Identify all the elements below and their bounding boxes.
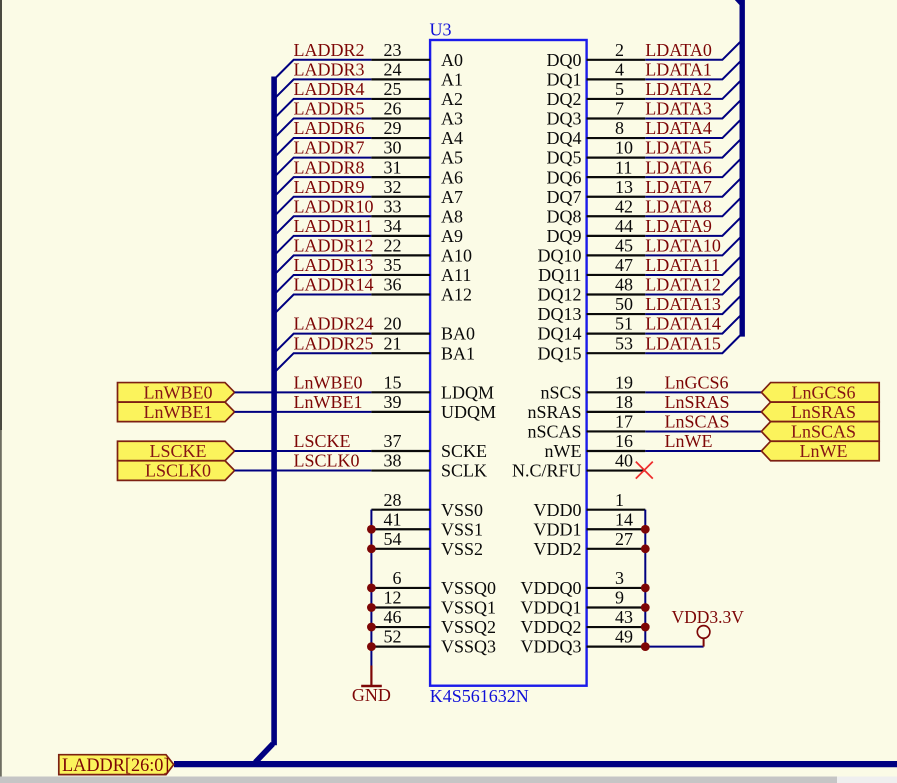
pin 17 (nSCAS) bbox=[587, 430, 646, 432]
pin 7 (DQ3) bbox=[587, 117, 646, 119]
svg-text:40: 40 bbox=[615, 451, 633, 471]
svg-text:50: 50 bbox=[615, 294, 633, 314]
svg-text:A2: A2 bbox=[441, 89, 463, 109]
svg-text:17: 17 bbox=[615, 412, 633, 432]
svg-text:VDDQ0: VDDQ0 bbox=[521, 578, 582, 598]
svg-text:39: 39 bbox=[384, 392, 402, 412]
svg-text:LADDR12: LADDR12 bbox=[294, 236, 374, 256]
svg-text:4: 4 bbox=[615, 59, 624, 79]
svg-text:A1: A1 bbox=[441, 69, 463, 89]
pin 23 (A0) bbox=[371, 59, 430, 61]
svg-text:14: 14 bbox=[615, 509, 633, 529]
svg-text:LDATA14: LDATA14 bbox=[645, 314, 721, 334]
pin 6 (VSSQ0) bbox=[371, 587, 430, 589]
svg-text:VDDQ1: VDDQ1 bbox=[521, 598, 582, 618]
pin 24 (A1) bbox=[371, 78, 430, 80]
svg-text:8: 8 bbox=[615, 118, 624, 138]
svg-text:DQ12: DQ12 bbox=[538, 285, 582, 305]
svg-text:VSSQ1: VSSQ1 bbox=[441, 598, 496, 618]
svg-text:52: 52 bbox=[384, 627, 402, 647]
svg-text:BA1: BA1 bbox=[441, 343, 475, 363]
svg-text:38: 38 bbox=[384, 451, 402, 471]
pin 30 (A5) bbox=[371, 157, 430, 159]
svg-text:16: 16 bbox=[615, 431, 633, 451]
svg-text:U3: U3 bbox=[430, 20, 452, 40]
svg-text:A12: A12 bbox=[441, 285, 472, 305]
bus LDATA top bend bbox=[735, 0, 741, 3]
svg-text:43: 43 bbox=[615, 607, 633, 627]
svg-text:DQ5: DQ5 bbox=[547, 148, 582, 168]
svg-text:LADDR[26:0]: LADDR[26:0] bbox=[62, 755, 170, 776]
wire LDATA2 with bus entry bbox=[645, 79, 742, 99]
junction on GND net row 25 bbox=[367, 544, 376, 553]
wire LADDR10 with bus entry bbox=[274, 216, 371, 236]
svg-text:LnGCS6: LnGCS6 bbox=[665, 372, 729, 392]
svg-text:VSS2: VSS2 bbox=[441, 539, 483, 559]
port LSCLK0 bbox=[118, 461, 235, 481]
pin 38 (SCLK) bbox=[371, 469, 430, 471]
svg-text:LDATA1: LDATA1 bbox=[645, 59, 712, 79]
pin 51 (DQ14) bbox=[587, 333, 646, 335]
bus LADDR 45-degree corner bbox=[255, 744, 273, 763]
pin 12 (VSSQ1) bbox=[371, 606, 430, 608]
pin 4 (DQ1) bbox=[587, 78, 646, 80]
pin 37 (SCKE) bbox=[371, 450, 430, 452]
pin 14 (VDD1) bbox=[587, 528, 646, 530]
svg-text:LDATA0: LDATA0 bbox=[645, 40, 712, 60]
svg-text:VDD1: VDD1 bbox=[534, 519, 582, 539]
pin 8 (DQ4) bbox=[587, 137, 646, 139]
svg-text:2: 2 bbox=[615, 40, 624, 60]
wire LnWBE0 bbox=[235, 391, 372, 393]
pin 45 (DQ10) bbox=[587, 254, 646, 256]
svg-text:A4: A4 bbox=[441, 128, 463, 148]
junction on VDD net row 27 bbox=[641, 584, 650, 593]
junction on VDD net row 25 bbox=[641, 544, 650, 553]
svg-text:VSSQ0: VSSQ0 bbox=[441, 578, 496, 598]
junction on GND net row 30 bbox=[367, 642, 376, 651]
ground symbol GND bbox=[361, 666, 382, 687]
pin 16 (nWE) bbox=[587, 450, 646, 452]
svg-text:LDATA11: LDATA11 bbox=[645, 255, 720, 275]
svg-text:DQ13: DQ13 bbox=[538, 304, 582, 324]
svg-text:A10: A10 bbox=[441, 246, 472, 266]
pin 36 (A12) bbox=[371, 293, 430, 295]
wire LADDR3 with bus entry bbox=[274, 79, 371, 99]
pin 42 (DQ8) bbox=[587, 215, 646, 217]
pin 28 (VSS0) bbox=[371, 509, 430, 511]
pin 49 (VDDQ3) bbox=[587, 645, 646, 647]
svg-text:LDATA3: LDATA3 bbox=[645, 99, 712, 119]
wire LnSCAS bbox=[645, 430, 761, 432]
port LSCKE bbox=[118, 441, 235, 461]
junction on GND net row 29 bbox=[367, 623, 376, 632]
wire LnWE bbox=[645, 450, 761, 452]
svg-text:26: 26 bbox=[384, 99, 402, 119]
pin 54 (VSS2) bbox=[371, 548, 430, 550]
pin 29 (A4) bbox=[371, 137, 430, 139]
pin 10 (DQ5) bbox=[587, 157, 646, 159]
svg-text:LnWE: LnWE bbox=[665, 431, 713, 451]
svg-text:24: 24 bbox=[384, 59, 402, 79]
pin 2 (DQ0) bbox=[587, 59, 646, 61]
pin 22 (A10) bbox=[371, 254, 430, 256]
svg-text:DQ9: DQ9 bbox=[547, 226, 582, 246]
bus LADDR horizontal segment bbox=[174, 761, 897, 767]
svg-text:LnSRAS: LnSRAS bbox=[791, 402, 856, 422]
svg-text:LDATA13: LDATA13 bbox=[645, 294, 721, 314]
svg-text:31: 31 bbox=[384, 157, 402, 177]
pin 47 (DQ11) bbox=[587, 274, 646, 276]
svg-text:7: 7 bbox=[615, 99, 624, 119]
svg-text:DQ8: DQ8 bbox=[547, 206, 582, 226]
pin 25 (A2) bbox=[371, 98, 430, 100]
svg-text:LDATA12: LDATA12 bbox=[645, 275, 721, 295]
svg-text:K4S561632N: K4S561632N bbox=[430, 686, 529, 706]
junction on GND net row 24 bbox=[367, 525, 376, 534]
svg-text:GND: GND bbox=[352, 685, 391, 705]
pin 40 (N.C/RFU) bbox=[587, 469, 646, 471]
svg-text:LDATA9: LDATA9 bbox=[645, 216, 712, 236]
svg-text:25: 25 bbox=[384, 79, 402, 99]
svg-text:DQ2: DQ2 bbox=[547, 89, 582, 109]
svg-text:11: 11 bbox=[615, 157, 632, 177]
svg-text:DQ11: DQ11 bbox=[538, 265, 581, 285]
svg-text:41: 41 bbox=[384, 509, 402, 529]
wire LADDR8 with bus entry bbox=[274, 177, 371, 197]
svg-text:A5: A5 bbox=[441, 148, 463, 168]
port LnWBE1 bbox=[118, 402, 235, 422]
wire LADDR11 with bus entry bbox=[274, 236, 371, 256]
svg-text:SCKE: SCKE bbox=[441, 441, 487, 461]
svg-text:VDDQ3: VDDQ3 bbox=[521, 637, 582, 657]
svg-text:DQ3: DQ3 bbox=[547, 109, 582, 129]
wire LADDR5 with bus entry bbox=[274, 118, 371, 138]
svg-text:LSCLK0: LSCLK0 bbox=[294, 451, 360, 471]
svg-text:20: 20 bbox=[384, 314, 402, 334]
svg-text:A6: A6 bbox=[441, 167, 463, 187]
svg-text:LADDR6: LADDR6 bbox=[294, 118, 365, 138]
svg-text:LADDR3: LADDR3 bbox=[294, 59, 365, 79]
wire LDATA3 with bus entry bbox=[645, 99, 742, 119]
svg-text:30: 30 bbox=[384, 138, 402, 158]
svg-text:LADDR8: LADDR8 bbox=[294, 157, 365, 177]
wire LnWBE1 bbox=[235, 411, 372, 413]
svg-text:DQ7: DQ7 bbox=[547, 187, 582, 207]
svg-text:nSRAS: nSRAS bbox=[527, 402, 581, 422]
svg-text:DQ15: DQ15 bbox=[538, 343, 582, 363]
svg-text:42: 42 bbox=[615, 196, 633, 216]
svg-text:LnWBE1: LnWBE1 bbox=[294, 392, 363, 412]
svg-text:10: 10 bbox=[615, 138, 633, 158]
wire LDATA5 with bus entry bbox=[645, 138, 742, 158]
no-connect marker X on pin 40 bbox=[636, 462, 653, 479]
pin 18 (nSRAS) bbox=[587, 411, 646, 413]
port LnSRAS bbox=[761, 402, 879, 422]
svg-text:A3: A3 bbox=[441, 109, 463, 129]
svg-text:VDDQ2: VDDQ2 bbox=[521, 617, 582, 637]
svg-text:37: 37 bbox=[384, 431, 402, 451]
svg-text:46: 46 bbox=[384, 607, 402, 627]
IC U3 body rectangle bbox=[430, 40, 586, 686]
pin 43 (VDDQ2) bbox=[587, 626, 646, 628]
pin 34 (A9) bbox=[371, 235, 430, 237]
wire LSCLK0 bbox=[235, 470, 372, 472]
svg-text:LnSRAS: LnSRAS bbox=[665, 392, 730, 412]
svg-text:A11: A11 bbox=[441, 265, 471, 285]
svg-text:45: 45 bbox=[615, 236, 633, 256]
svg-text:DQ4: DQ4 bbox=[547, 128, 582, 148]
wire LADDR6 with bus entry bbox=[274, 138, 371, 158]
svg-text:LDATA2: LDATA2 bbox=[645, 79, 712, 99]
svg-text:LSCKE: LSCKE bbox=[149, 441, 206, 461]
svg-text:48: 48 bbox=[615, 275, 633, 295]
svg-text:LDATA15: LDATA15 bbox=[645, 333, 721, 353]
svg-text:LDATA5: LDATA5 bbox=[645, 138, 712, 158]
pin 50 (DQ13) bbox=[587, 313, 646, 315]
wire LDATA10 with bus entry bbox=[645, 236, 742, 256]
svg-text:32: 32 bbox=[384, 177, 402, 197]
svg-text:N.C/RFU: N.C/RFU bbox=[512, 461, 582, 481]
svg-text:47: 47 bbox=[615, 255, 633, 275]
svg-text:21: 21 bbox=[384, 333, 402, 353]
svg-text:VSS1: VSS1 bbox=[441, 519, 483, 539]
wire LDATA15 with bus entry bbox=[645, 334, 742, 354]
svg-text:DQ6: DQ6 bbox=[547, 167, 582, 187]
svg-text:LnWBE0: LnWBE0 bbox=[294, 372, 363, 392]
svg-text:A0: A0 bbox=[441, 50, 463, 70]
svg-text:DQ0: DQ0 bbox=[547, 50, 582, 70]
svg-text:LADDR14: LADDR14 bbox=[294, 275, 374, 295]
wire LDATA12 with bus entry bbox=[645, 275, 742, 295]
junction on VDD net row 30 bbox=[641, 642, 650, 651]
svg-text:LDATA8: LDATA8 bbox=[645, 196, 712, 216]
svg-text:34: 34 bbox=[384, 216, 402, 236]
wire LADDR2 with bus entry bbox=[274, 60, 371, 80]
svg-text:UDQM: UDQM bbox=[441, 402, 496, 422]
svg-text:LDATA4: LDATA4 bbox=[645, 118, 712, 138]
bus LADDR vertical segment bbox=[271, 77, 277, 746]
svg-text:49: 49 bbox=[615, 627, 633, 647]
wire LDATA4 with bus entry bbox=[645, 118, 742, 138]
svg-text:LADDR11: LADDR11 bbox=[294, 216, 373, 236]
bus net label LADDR[26:0] bbox=[59, 755, 174, 775]
svg-text:12: 12 bbox=[384, 588, 402, 608]
power symbol VDD3.3V circle bbox=[697, 626, 710, 647]
pin 11 (DQ6) bbox=[587, 176, 646, 178]
svg-text:LADDR4: LADDR4 bbox=[294, 79, 365, 99]
svg-text:9: 9 bbox=[615, 588, 624, 608]
pin 3 (VDDQ0) bbox=[587, 587, 646, 589]
svg-text:LnSCAS: LnSCAS bbox=[791, 422, 856, 442]
svg-text:LSCKE: LSCKE bbox=[294, 431, 351, 451]
junction on GND net row 27 bbox=[367, 584, 376, 593]
junction on VDD net row 28 bbox=[641, 603, 650, 612]
svg-text:LADDR2: LADDR2 bbox=[294, 40, 365, 60]
wire LnSRAS bbox=[645, 411, 761, 413]
pin 26 (A3) bbox=[371, 117, 430, 119]
wire GND net vertical bbox=[370, 510, 372, 666]
wire LSCKE bbox=[235, 450, 372, 452]
pin 33 (A8) bbox=[371, 215, 430, 217]
svg-text:51: 51 bbox=[615, 314, 633, 334]
svg-text:SCLK: SCLK bbox=[441, 461, 487, 481]
wire LADDR7 with bus entry bbox=[274, 158, 371, 178]
pin 39 (UDQM) bbox=[371, 411, 430, 413]
svg-text:29: 29 bbox=[384, 118, 402, 138]
svg-text:nSCS: nSCS bbox=[540, 382, 581, 402]
svg-text:A7: A7 bbox=[441, 187, 463, 207]
svg-text:LnWE: LnWE bbox=[800, 441, 848, 461]
port LnWBE0 bbox=[118, 383, 235, 403]
svg-text:53: 53 bbox=[615, 333, 633, 353]
pin 15 (LDQM) bbox=[371, 391, 430, 393]
pin 13 (DQ7) bbox=[587, 196, 646, 198]
svg-text:44: 44 bbox=[615, 216, 633, 236]
svg-text:DQ14: DQ14 bbox=[538, 324, 582, 344]
pin 41 (VSS1) bbox=[371, 528, 430, 530]
svg-text:LDATA7: LDATA7 bbox=[645, 177, 712, 197]
svg-text:LADDR5: LADDR5 bbox=[294, 99, 365, 119]
svg-text:3: 3 bbox=[615, 568, 624, 588]
svg-text:LADDR7: LADDR7 bbox=[294, 138, 365, 158]
pin 19 (nSCS) bbox=[587, 391, 646, 393]
pin 31 (A6) bbox=[371, 176, 430, 178]
pin 32 (A7) bbox=[371, 196, 430, 198]
svg-text:23: 23 bbox=[384, 40, 402, 60]
svg-text:LnWBE0: LnWBE0 bbox=[144, 382, 213, 402]
svg-text:nWE: nWE bbox=[545, 441, 582, 461]
pin 35 (A11) bbox=[371, 274, 430, 276]
wire LDATA14 with bus entry bbox=[645, 314, 742, 334]
svg-text:13: 13 bbox=[615, 177, 633, 197]
pin 52 (VSSQ3) bbox=[371, 645, 430, 647]
junction on VDD net row 29 bbox=[641, 623, 650, 632]
svg-text:LnSCAS: LnSCAS bbox=[665, 412, 730, 432]
svg-text:19: 19 bbox=[615, 372, 633, 392]
wire LADDR4 with bus entry bbox=[274, 99, 371, 119]
port LnSCAS bbox=[761, 422, 879, 442]
wire LnGCS6 bbox=[645, 391, 761, 393]
svg-text:A8: A8 bbox=[441, 206, 463, 226]
svg-text:VSSQ2: VSSQ2 bbox=[441, 617, 496, 637]
svg-text:LADDR10: LADDR10 bbox=[294, 196, 374, 216]
svg-text:LADDR24: LADDR24 bbox=[294, 314, 374, 334]
wire LADDR24 with bus entry bbox=[274, 334, 371, 354]
bus LDATA vertical segment bbox=[740, 0, 745, 337]
svg-text:LSCLK0: LSCLK0 bbox=[145, 461, 211, 481]
svg-text:DQ10: DQ10 bbox=[538, 246, 582, 266]
svg-text:VDD3.3V: VDD3.3V bbox=[672, 607, 745, 627]
wire LDATA11 with bus entry bbox=[645, 255, 742, 275]
svg-text:BA0: BA0 bbox=[441, 324, 475, 344]
wire LADDR13 with bus entry bbox=[274, 275, 371, 295]
pin 21 (BA1) bbox=[371, 352, 430, 354]
svg-text:LnWBE1: LnWBE1 bbox=[144, 402, 213, 422]
wire LDATA6 with bus entry bbox=[645, 158, 742, 178]
svg-text:15: 15 bbox=[384, 372, 402, 392]
svg-text:VSS0: VSS0 bbox=[441, 500, 483, 520]
junction on VDD net row 24 bbox=[641, 525, 650, 534]
svg-text:LADDR13: LADDR13 bbox=[294, 255, 374, 275]
junction on GND net row 28 bbox=[367, 603, 376, 612]
svg-text:VSSQ3: VSSQ3 bbox=[441, 637, 496, 657]
wire LADDR12 with bus entry bbox=[274, 255, 371, 275]
svg-text:6: 6 bbox=[393, 568, 402, 588]
pin 27 (VDD2) bbox=[587, 548, 646, 550]
svg-text:18: 18 bbox=[615, 392, 633, 412]
svg-text:35: 35 bbox=[384, 255, 402, 275]
wire LDATA9 with bus entry bbox=[645, 216, 742, 236]
svg-text:36: 36 bbox=[384, 275, 402, 295]
svg-text:22: 22 bbox=[384, 236, 402, 256]
svg-text:54: 54 bbox=[384, 529, 402, 549]
wire LDATA13 with bus entry bbox=[645, 295, 742, 315]
svg-text:LADDR25: LADDR25 bbox=[294, 333, 374, 353]
svg-text:LDATA10: LDATA10 bbox=[645, 236, 721, 256]
pin 48 (DQ12) bbox=[587, 293, 646, 295]
pin 5 (DQ2) bbox=[587, 98, 646, 100]
pin 1 (VDD0) bbox=[587, 509, 646, 511]
wire LDATA8 with bus entry bbox=[645, 197, 742, 217]
svg-text:LnGCS6: LnGCS6 bbox=[791, 382, 855, 402]
svg-text:VDD2: VDD2 bbox=[534, 539, 582, 559]
pin 44 (DQ9) bbox=[587, 235, 646, 237]
svg-text:27: 27 bbox=[615, 529, 633, 549]
pin 46 (VSSQ2) bbox=[371, 626, 430, 628]
svg-text:DQ1: DQ1 bbox=[547, 69, 582, 89]
svg-text:VDD0: VDD0 bbox=[534, 500, 582, 520]
svg-text:5: 5 bbox=[615, 79, 624, 99]
wire LDATA1 with bus entry bbox=[645, 60, 742, 80]
pin 20 (BA0) bbox=[371, 333, 430, 335]
svg-text:A9: A9 bbox=[441, 226, 463, 246]
svg-text:LDATA6: LDATA6 bbox=[645, 157, 712, 177]
wire LDATA0 with bus entry bbox=[645, 40, 742, 60]
wire VDD net vertical and horizontal bbox=[645, 510, 703, 647]
svg-text:LDQM: LDQM bbox=[441, 382, 494, 402]
port LnWE bbox=[761, 441, 879, 461]
svg-text:28: 28 bbox=[384, 490, 402, 510]
svg-text:nSCAS: nSCAS bbox=[527, 422, 581, 442]
svg-text:LADDR9: LADDR9 bbox=[294, 177, 365, 197]
pin 9 (VDDQ1) bbox=[587, 606, 646, 608]
wire LADDR25 with bus entry bbox=[274, 353, 371, 373]
wire LDATA7 with bus entry bbox=[645, 177, 742, 197]
svg-text:1: 1 bbox=[615, 490, 624, 510]
wire LADDR14 with bus entry bbox=[274, 295, 371, 315]
port LnGCS6 bbox=[761, 383, 879, 403]
svg-text:33: 33 bbox=[384, 196, 402, 216]
pin 53 (DQ15) bbox=[587, 352, 646, 354]
wire LADDR9 with bus entry bbox=[274, 197, 371, 217]
